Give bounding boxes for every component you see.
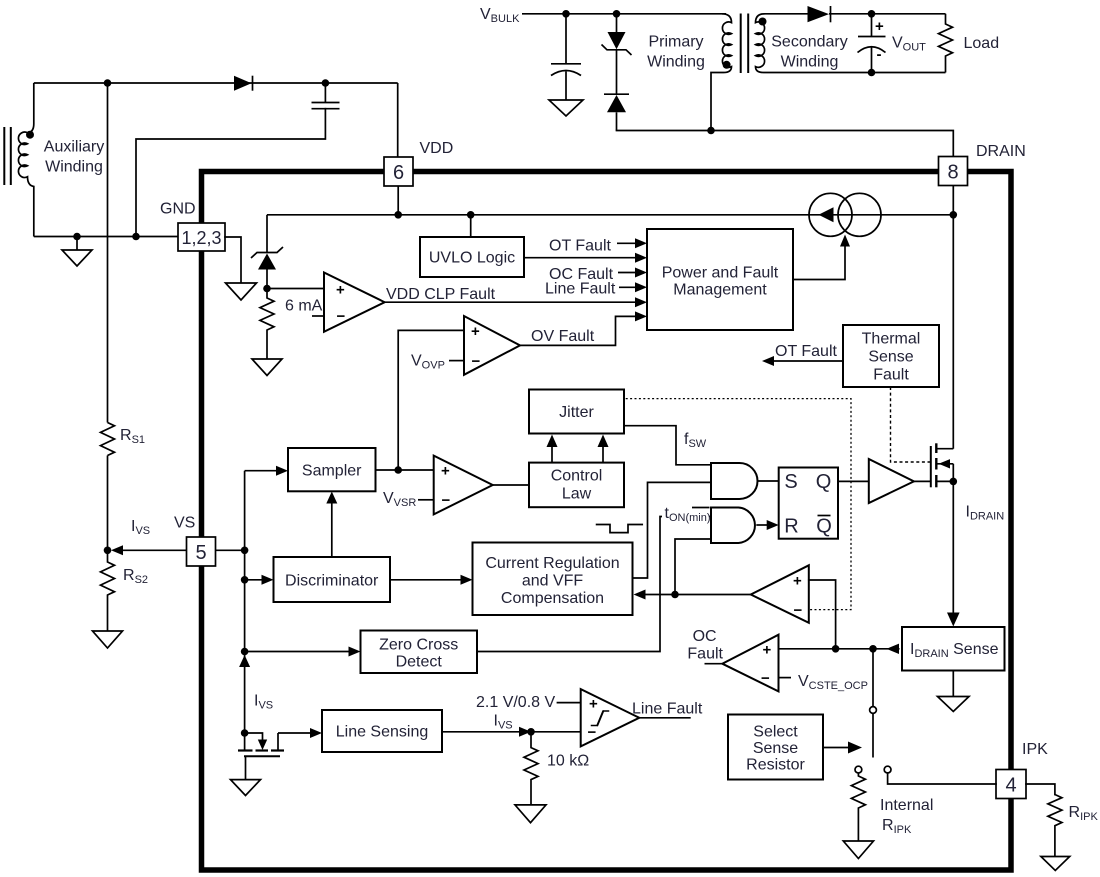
label OC Fault (687, 628, 723, 663)
transistor Q2 line sense FET (238, 733, 284, 780)
svg-text:+: + (875, 18, 884, 35)
wire to discriminator + arrow (245, 575, 274, 585)
svg-text:OT Fault: OT Fault (775, 343, 838, 360)
wire OC minus stub (779, 677, 792, 679)
current source (two circles) (809, 193, 881, 236)
svg-text:Internal: Internal (880, 797, 933, 814)
node sampler/ovp (394, 466, 402, 474)
label VOVP (411, 353, 445, 372)
svg-text:OV Fault: OV Fault (531, 328, 595, 345)
svg-text:GND: GND (160, 201, 196, 218)
comparator line fault (hysteresis) (581, 689, 640, 746)
svg-text:Current Regulation: Current Regulation (485, 555, 619, 572)
arrow ivs up (239, 655, 250, 667)
aux phase dot (26, 131, 34, 139)
wire select arrow to switch (823, 742, 862, 754)
ground idrain sense (938, 671, 970, 712)
svg-text:Line Fault: Line Fault (545, 281, 616, 298)
ground RS2 (93, 631, 123, 648)
wire CR out to and1 (633, 482, 712, 578)
svg-text:Detect: Detect (396, 654, 443, 671)
label VOUT (892, 35, 926, 54)
label IVS (line) (494, 713, 513, 732)
comparator CS feedback (points left) (751, 565, 809, 623)
wire drain vertical (952, 186, 954, 449)
svg-text:OT Fault: OT Fault (549, 238, 612, 255)
svg-text:1,2,3: 1,2,3 (181, 228, 221, 248)
label tON(min) with overline (662, 505, 711, 524)
ground internal ripk (843, 841, 873, 859)
label RS1 (120, 427, 145, 446)
svg-text:−: − (761, 670, 770, 687)
svg-text:2.1 V/0.8 V: 2.1 V/0.8 V (476, 694, 555, 711)
label IDRAIN (966, 504, 1005, 523)
node bulk cap tap (562, 10, 570, 18)
label RIPK (1069, 804, 1099, 823)
aux core (4, 127, 11, 185)
label OT Fault (thermal) (775, 343, 838, 360)
primary phase dot (723, 61, 731, 69)
wire switch right contact to pin4 (888, 773, 996, 784)
node mosfet source (950, 478, 958, 486)
svg-text:Law: Law (562, 486, 592, 503)
svg-text:UVLO Logic: UVLO Logic (429, 250, 515, 267)
block Power and Fault Management (647, 229, 793, 330)
wire and1 to S (758, 480, 779, 482)
wire vsr to control law (493, 484, 529, 486)
secondary winding coil (756, 14, 946, 73)
diode D1 aux rectifier (234, 76, 253, 91)
svg-text:10 kΩ: 10 kΩ (547, 753, 589, 770)
wire VBULK rail (522, 13, 726, 15)
svg-text:and VFF: and VFF (522, 573, 584, 590)
ground RIPK (1041, 857, 1070, 871)
block Zero Cross Detect (361, 631, 478, 674)
resistor RS1 (101, 83, 115, 550)
wire OT fault out of thermal + arrow (762, 356, 843, 366)
diode D4 output rectifier (808, 6, 946, 22)
ground aux (62, 237, 92, 267)
svg-text:+: + (336, 282, 345, 299)
wire to sampler + arrow (245, 466, 288, 476)
wire down to pin6 (397, 83, 399, 157)
node vs2 (241, 576, 249, 584)
svg-text:Zero Cross: Zero Cross (379, 637, 458, 654)
ground bulk cap (549, 100, 583, 116)
wire sampler out (376, 469, 434, 471)
svg-text:+: + (793, 573, 802, 590)
block Select Sense Resistor (728, 715, 823, 780)
block Discriminator (274, 557, 391, 602)
svg-text:Auxiliary: Auxiliary (44, 139, 104, 156)
svg-text:IPK: IPK (1022, 741, 1048, 758)
secondary phase dot (759, 18, 767, 26)
block Jitter (529, 390, 624, 434)
block Thermal Sense Fault (843, 325, 939, 387)
pulse glyph ton(min) (597, 525, 643, 533)
svg-text:Control: Control (551, 468, 603, 485)
node comp out / and2 (671, 591, 679, 599)
label Auxiliary Winding (44, 139, 104, 176)
svg-text:Line Fault: Line Fault (632, 701, 703, 718)
node sense a (832, 645, 840, 653)
TVS zener D2 (602, 14, 632, 55)
svg-text:S: S (784, 471, 797, 493)
node zener/6mA (263, 285, 271, 293)
wire to zero cross + arrow (245, 647, 361, 657)
wire pin5 to node (216, 549, 245, 551)
wire up to and2 in2 (675, 539, 711, 595)
wire discriminator to current reg + arrow (390, 575, 473, 585)
label VCSTE_OCP (798, 673, 868, 692)
pin 8 DRAIN (939, 157, 968, 186)
wire driver to gate (914, 480, 931, 482)
pin 6 VDD (384, 157, 413, 186)
label IVS left (131, 518, 150, 537)
svg-text:VDD: VDD (420, 140, 454, 157)
wire pin4 to RIPK (1026, 784, 1055, 795)
node sense b (869, 645, 877, 653)
auxiliary winding coil (18, 83, 33, 237)
svg-text:Load: Load (964, 35, 1000, 52)
op-amp OVP (449, 316, 520, 375)
svg-text:Q: Q (816, 516, 832, 538)
label 10 kOhm (547, 753, 589, 770)
svg-text:Q: Q (816, 471, 832, 493)
label Line Fault (632, 701, 703, 718)
svg-text:Winding: Winding (45, 159, 103, 176)
wire VS to pin5 with arrow (111, 545, 187, 555)
wire line sensing out + arrow + node (442, 727, 581, 737)
wire VDD internal rail (267, 214, 953, 216)
svg-text:−: − (442, 492, 451, 509)
wire fet gate to line sensing + arrow (278, 728, 322, 738)
wire pin6 to VDD rail (397, 186, 399, 215)
transformer core (741, 14, 749, 74)
svg-text:Primary: Primary (648, 34, 703, 51)
wire comp + to sense rail (809, 580, 836, 649)
label 2.1V/0.8V + stub (476, 694, 581, 711)
ground 6mA (252, 359, 282, 376)
svg-text:+: + (763, 642, 772, 659)
wire line fault out (639, 717, 690, 719)
resistor Load (939, 14, 953, 73)
node TVS tap (613, 10, 621, 18)
node rail uvlo (467, 211, 475, 219)
label IPK (1022, 741, 1048, 758)
node VDD cap tap (322, 79, 330, 87)
svg-text:R: R (784, 516, 798, 538)
resistor 10k (524, 732, 538, 805)
svg-text:Winding: Winding (647, 54, 705, 71)
wire comp out to CR + arrow (634, 590, 751, 600)
wire secondary top (764, 13, 808, 15)
svg-text:Sense: Sense (868, 349, 913, 366)
svg-text:Thermal: Thermal (862, 331, 921, 348)
svg-text:Power and Fault: Power and Fault (662, 265, 779, 282)
block IDRAIN Sense (902, 627, 1005, 671)
svg-text:Sense: Sense (753, 740, 798, 757)
label RS2 (123, 567, 148, 586)
wire uvlo supply (470, 215, 472, 237)
label VDD CLP Fault (386, 286, 496, 303)
svg-text:6 mA: 6 mA (285, 298, 323, 315)
label VS (174, 515, 195, 532)
resistor RIPK external (1048, 795, 1062, 857)
node drain rail (950, 211, 958, 219)
wire jitter to and1 (fsw) (624, 426, 711, 465)
label VBULK (480, 6, 520, 25)
AND gate 2 (711, 508, 755, 544)
label Primary Winding (647, 34, 705, 71)
label Internal RIPK (880, 797, 933, 836)
dotted jitter feed path (626, 399, 851, 610)
label Load (964, 35, 1000, 52)
label IVS (fet) (254, 693, 273, 712)
svg-text:Management: Management (673, 282, 767, 299)
capacitor output (858, 14, 886, 73)
svg-text:6: 6 (393, 162, 404, 184)
wire sense out + arrow left (779, 644, 900, 654)
wire OV fault path (520, 311, 647, 345)
switch sense select (855, 649, 891, 773)
comparator OC (points left) (722, 635, 778, 692)
svg-text:−: − (472, 353, 481, 370)
wire idrain down + arrow (947, 481, 960, 626)
svg-text:Jitter: Jitter (559, 404, 594, 421)
label VDD (420, 140, 454, 157)
dashed thermal to gate (891, 387, 931, 462)
svg-text:OC: OC (693, 628, 717, 645)
svg-text:4: 4 (1005, 774, 1016, 796)
wire uvlo to power mgmt (524, 253, 647, 263)
latch S/R (779, 468, 838, 539)
svg-text:Secondary: Secondary (771, 34, 848, 51)
node vs3 (241, 648, 249, 656)
node rail pin6 (394, 211, 402, 219)
label fSW (684, 431, 707, 450)
label 6 mA (285, 298, 323, 315)
svg-text:+: + (441, 463, 450, 480)
block Current Regulation and VFF Compensation (473, 543, 633, 616)
op-amp VDD CLP (312, 273, 385, 332)
ground fet (231, 780, 261, 796)
svg-text:Select: Select (753, 724, 798, 741)
svg-text:VS: VS (174, 515, 195, 532)
svg-text:8: 8 (947, 161, 958, 183)
svg-text:+: + (589, 696, 598, 713)
zener VDD clamp (251, 215, 283, 289)
driver buffer (869, 459, 914, 503)
label Secondary Winding (771, 34, 848, 71)
wire gnd rail (aux bottom) (34, 236, 178, 238)
capacitor bulk (551, 14, 581, 100)
label DRAIN (976, 143, 1026, 160)
wire VS vertical (244, 471, 246, 733)
wire to clp + input (267, 288, 324, 290)
node vs1 (241, 547, 249, 555)
block Line Sensing (322, 710, 442, 752)
wire clp fault to power mgmt (385, 297, 647, 307)
op-amp VSR (418, 456, 493, 515)
wire Q to driver (838, 480, 869, 482)
block Control Law (529, 463, 624, 508)
pin 5 VS (187, 537, 216, 566)
node cap return (132, 233, 140, 241)
wire OC out (705, 663, 723, 665)
svg-text:Fault: Fault (687, 646, 723, 663)
wire zcd to and2 (tonmin) (477, 517, 711, 652)
node aux top / RS1 tap (104, 79, 112, 87)
svg-text:−: − (794, 602, 803, 619)
block UVLO Logic (420, 237, 524, 277)
pin 4 IPK (996, 770, 1026, 799)
label OT Fault + arrow (549, 238, 647, 255)
wire primary-return to drain (617, 131, 954, 157)
svg-text:+: + (471, 323, 480, 340)
wire power mgmt to current source (793, 235, 850, 280)
svg-text:VDD CLP Fault: VDD CLP Fault (386, 286, 496, 303)
arrows control law to jitter (547, 435, 609, 463)
resistor 6mA (260, 289, 274, 360)
transistor Q1 power MOSFET (931, 443, 954, 487)
node VS divider (104, 547, 112, 555)
AND gate 1 (711, 463, 758, 499)
label Line Fault + arrow (545, 281, 647, 298)
svg-text:Line Sensing: Line Sensing (336, 724, 429, 741)
capacitor VDD (136, 83, 340, 237)
primary winding coil (711, 14, 732, 131)
wire pin123 to internal gnd (225, 237, 241, 283)
node output cap top (868, 10, 876, 18)
node primary return (707, 127, 715, 135)
node fet drain (241, 729, 249, 737)
label OV Fault (531, 328, 595, 345)
svg-text:Discriminator: Discriminator (285, 573, 379, 590)
node aux gnd (73, 233, 81, 241)
ground pin123 (226, 283, 257, 300)
svg-text:Resistor: Resistor (746, 757, 805, 774)
diode D3 (series, pointing up) (604, 50, 629, 131)
svg-text:DRAIN: DRAIN (976, 143, 1026, 160)
block Sampler (288, 448, 376, 491)
label GND (160, 201, 196, 218)
label OC Fault + arrow (549, 266, 647, 283)
ground 10k (515, 805, 546, 823)
wire aux top rail (34, 82, 398, 84)
svg-text:Fault: Fault (873, 367, 909, 384)
svg-text:Winding: Winding (781, 54, 839, 71)
node output bottom (868, 69, 876, 77)
resistor internal RIPK (851, 773, 865, 841)
wire and2 to R + arrow (756, 520, 778, 530)
wire up to ovp + (398, 330, 464, 470)
svg-text:Compensation: Compensation (501, 590, 604, 607)
svg-text:−: − (588, 724, 597, 741)
label VVSR (383, 490, 416, 509)
wire discriminator to sampler + arrow (326, 492, 337, 558)
svg-text:5: 5 (195, 542, 206, 564)
svg-text:-: - (877, 46, 882, 63)
resistor RS2 (101, 550, 115, 631)
svg-text:−: − (337, 308, 346, 325)
svg-text:Sampler: Sampler (302, 463, 362, 480)
pin 1,2,3 GND (178, 223, 225, 251)
